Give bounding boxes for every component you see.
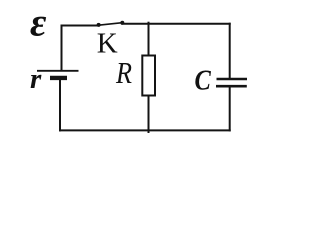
svg-text:K: K <box>97 28 118 60</box>
resistor R body <box>142 56 155 96</box>
wire: bottom horizontal rail <box>60 129 230 131</box>
capacitor C top plate <box>217 78 248 81</box>
switch K right contact dot <box>120 21 124 25</box>
wire: left vertical from top corner down to battery plate <box>61 26 63 71</box>
wire: right vertical from top corner down to capacitor <box>229 24 231 78</box>
svg-text:ε: ε <box>30 0 47 45</box>
battery negative plate (short thick) <box>50 76 67 80</box>
wire: middle vertical from top wire down to resistor <box>148 23 150 56</box>
wire: left vertical from battery down to bottom corner <box>59 80 61 130</box>
switch K lever <box>99 23 123 26</box>
capacitor C bottom plate <box>216 85 247 88</box>
wire: top-right segment from switch to top-right corner <box>122 23 229 25</box>
svg-text:R: R <box>115 55 132 90</box>
switch K left contact dot <box>97 23 101 27</box>
svg-text:r: r <box>30 63 42 95</box>
wire: middle vertical from resistor down to bottom wire <box>148 95 150 132</box>
battery positive plate (long thin) <box>37 70 79 72</box>
svg-text:C: C <box>195 65 212 96</box>
wire: top-left segment from corner to switch <box>62 25 99 27</box>
wire: right vertical from capacitor down to bottom corner <box>229 87 231 130</box>
